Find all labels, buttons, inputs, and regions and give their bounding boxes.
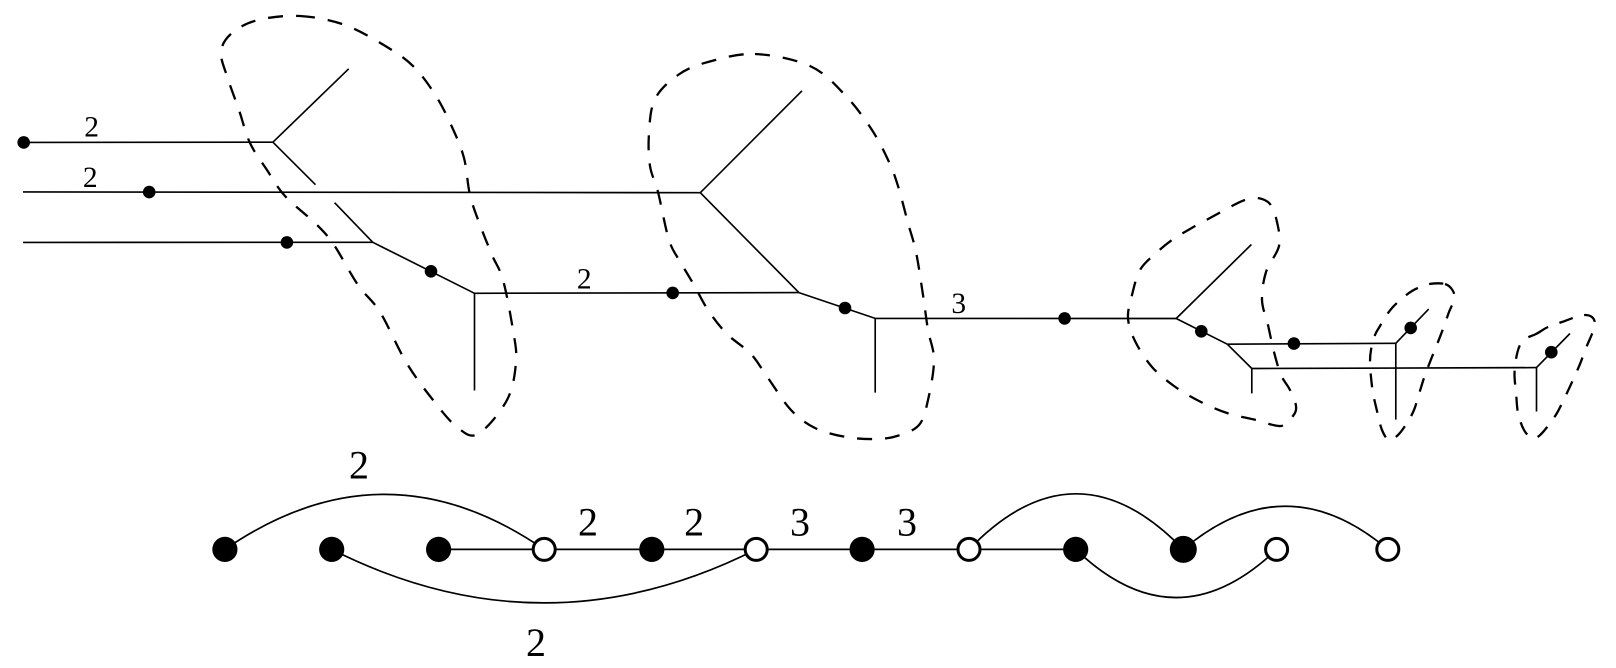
edge: vertex C upper diagonal bbox=[1396, 309, 1429, 343]
marked point on upper right horizontal bbox=[1288, 337, 1301, 350]
edge: diagonal from vertex1, lower part after crossing bbox=[335, 203, 373, 243]
edge: diagonal slope 1/2 down to floor vertex bbox=[373, 242, 475, 293]
svg-text:3: 3 bbox=[951, 288, 966, 320]
marked point on vertex C diagonal bbox=[1404, 322, 1417, 335]
straight edge v7 to v8 bbox=[862, 548, 969, 550]
dashed oval E1 around first trivalent vertex bbox=[221, 16, 516, 436]
arc edge v1 to v4 weight 2 bbox=[225, 494, 544, 549]
dashed oval B5 around fifth vertex bbox=[1515, 315, 1596, 438]
edge: vertical stub below vertex B bbox=[1251, 369, 1253, 394]
edge: vertical line through vertex C bbox=[1395, 343, 1397, 419]
edge: diagonal slope 1 to vertex B bbox=[1227, 344, 1252, 368]
straight edge v6 to v7 bbox=[756, 548, 862, 550]
edge: horizontal end line 2 weight 2 bbox=[23, 191, 700, 194]
straight edge v8 to v9 bbox=[969, 548, 1076, 550]
edge: vertex2 diagonal down bbox=[700, 193, 799, 293]
dashed oval B4 around fourth vertex bbox=[1370, 283, 1454, 440]
straight edge v4 to v5 bbox=[544, 548, 652, 550]
marked point on vertex3 diagonal bbox=[1195, 325, 1208, 338]
svg-text:3: 3 bbox=[897, 499, 917, 544]
marked point on diagonal 1 bbox=[425, 265, 438, 278]
arc edge v9 to v11 bbox=[1076, 549, 1277, 597]
arc edge v10 to v12 bbox=[1183, 506, 1388, 549]
svg-text:2: 2 bbox=[578, 499, 598, 544]
edge: diagonal slope 1/3 to second floor vertex bbox=[799, 293, 875, 319]
edge: vertical stub below second floor vertex bbox=[874, 318, 876, 392]
graph vertex v1 (black) bbox=[212, 537, 237, 562]
svg-text:2: 2 bbox=[349, 442, 369, 487]
graph vertex v12 (white) bbox=[1377, 538, 1399, 560]
edge: vertex1 upper branch bbox=[273, 69, 349, 142]
graph vertex v10 (black large) bbox=[1170, 536, 1197, 563]
svg-text:2: 2 bbox=[684, 499, 704, 544]
edge: horizontal bounded edge weight 3 bbox=[875, 317, 1176, 319]
marked point on line 2 bbox=[143, 186, 156, 199]
straight edge v3 to v4 bbox=[439, 548, 545, 550]
arc edge v8 to v10 bbox=[969, 494, 1183, 550]
edge: vertex3 upper branch bbox=[1176, 245, 1251, 319]
dashed oval B3 around third trivalent vertex bbox=[1128, 198, 1296, 426]
edge: vertical stub below vertex D bbox=[1536, 368, 1538, 412]
edge: vertex2 upper branch bbox=[700, 91, 802, 193]
edge: vertex D upper diagonal bbox=[1537, 334, 1571, 368]
graph vertex v2 (black) bbox=[319, 537, 344, 562]
edge: horizontal end line 3 bbox=[23, 241, 373, 243]
marked point on weight-3 edge bbox=[1058, 312, 1071, 325]
marked point on line 3 bbox=[281, 236, 294, 249]
edge: diagonal from vertex1, upper part before crossing bbox=[273, 142, 316, 185]
edge: vertex3 diagonal down slope 1/2 bbox=[1176, 319, 1227, 345]
graph vertex v6 (white) bbox=[745, 538, 767, 560]
graph vertex v7 (black) bbox=[850, 537, 875, 562]
edge: vertical stub below first floor vertex bbox=[474, 293, 476, 390]
marked point on vertex D diagonal bbox=[1545, 346, 1558, 359]
graph vertex v9 (black) bbox=[1063, 537, 1088, 562]
graph vertex v4 (white) bbox=[533, 538, 555, 560]
dashed oval E2 around second trivalent vertex bbox=[649, 54, 934, 439]
marked point on weight-2 edge bbox=[666, 287, 679, 300]
svg-text:3: 3 bbox=[790, 499, 810, 544]
svg-text:2: 2 bbox=[526, 620, 546, 665]
edge: horizontal end line 1 weight 2 bbox=[24, 141, 273, 143]
graph vertex v8 (white) bbox=[958, 538, 980, 560]
straight edge v5 to v6 bbox=[652, 548, 756, 550]
edge: lower right horizontal edge bbox=[1252, 367, 1537, 370]
marked point on diagonal 2 bbox=[839, 302, 852, 315]
marked point on line 1 bbox=[17, 136, 30, 149]
graph vertex v5 (black) bbox=[639, 537, 664, 562]
graph vertex v11 (white) bbox=[1266, 538, 1288, 560]
arc edge v2 to v6 weight 2 bbox=[332, 549, 757, 603]
svg-text:2: 2 bbox=[83, 162, 98, 194]
edge: horizontal bounded edge weight 2 bbox=[475, 292, 799, 295]
graph vertex v3 (black) bbox=[426, 537, 451, 562]
svg-text:2: 2 bbox=[577, 263, 592, 295]
edge: upper right horizontal edge bbox=[1227, 342, 1396, 345]
svg-text:2: 2 bbox=[84, 112, 99, 144]
